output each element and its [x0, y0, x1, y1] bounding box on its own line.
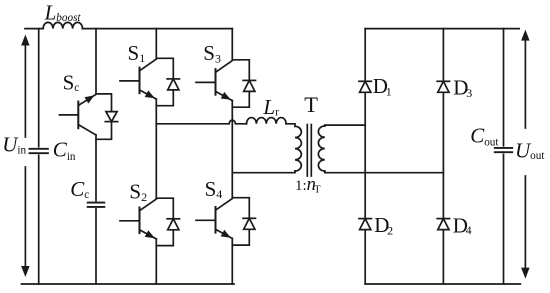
wire: primary bottom to S3/S4 midpoint	[232, 171, 295, 173]
wire: Sc leg (top rail to Sc, Sc to Cc, Cc to bottom rail)	[95, 29, 97, 284]
wire: S3/S4 bridge leg	[231, 29, 233, 284]
wire: bottom rail (primary side)	[22, 283, 235, 285]
transformer T secondary winding	[318, 126, 324, 171]
wire: D1/D2 leg	[364, 29, 366, 284]
antiparallel diode of S1	[156, 58, 179, 105]
diode D1	[359, 81, 371, 92]
wire: Lr to transformer primary	[286, 124, 295, 127]
wire: top rail (output side)	[365, 28, 519, 30]
capacitor Cout	[495, 148, 512, 152]
wire: Cout leg	[503, 29, 505, 284]
inductor Lr	[247, 118, 287, 124]
wire: secondary top to D1/D2 midpoint	[325, 124, 365, 127]
wire: D3/D4 leg	[442, 29, 444, 284]
wire: top rail (primary side)	[25, 28, 232, 30]
capacitor Cc	[88, 203, 105, 207]
transistor Sc	[59, 94, 96, 135]
transformer T core	[306, 125, 308, 177]
diode D3	[437, 81, 449, 92]
antiparallel diode of S2	[156, 198, 179, 245]
antiparallel diode of S3	[232, 60, 255, 107]
transformer T primary winding	[295, 126, 301, 171]
svg-text:T: T	[304, 92, 318, 117]
wire: secondary bottom to D3/D4 midpoint	[325, 171, 444, 173]
arrow Uout (output voltage, double-headed)	[521, 30, 530, 279]
capacitor Cin	[30, 149, 48, 153]
antiparallel diode of Sc	[96, 94, 118, 139]
wire: bottom rail (output side)	[365, 283, 520, 285]
antiparallel diode of S4	[232, 198, 255, 245]
wire: S1/S2 bridge leg	[155, 29, 157, 284]
transistor S1	[120, 59, 156, 99]
diode D2	[359, 219, 371, 230]
inductor L_boost	[43, 22, 82, 28]
transistor S2	[120, 199, 156, 239]
diode D4	[437, 219, 449, 230]
transistor S4	[196, 199, 232, 239]
wire: left input rail	[38, 29, 40, 284]
arrow Uin (input voltage, double-headed)	[21, 35, 30, 278]
transistor S3	[196, 61, 232, 101]
wire: bridge midpoint A to Lr (hops over S3/S4 leg)	[156, 120, 246, 124]
